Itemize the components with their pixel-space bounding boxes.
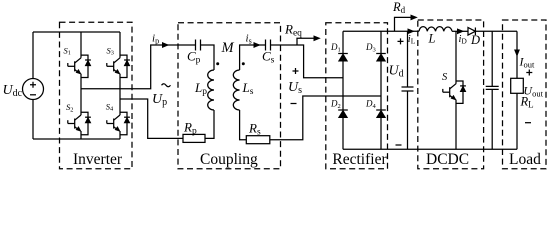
wire: load drop with I_out: [516, 31, 518, 78]
wire: rectifier right leg middle: [380, 61, 382, 110]
diode D (series, boost): [468, 28, 480, 48]
svg-text:D4: D4: [365, 99, 377, 110]
wire: right leg upper: [119, 32, 121, 58]
resistor R_p: [183, 120, 205, 143]
ac label tilde: [162, 84, 171, 87]
inductor L_s: [233, 70, 253, 110]
capacitor C_p: [187, 40, 201, 66]
svg-text:DCDC: DCDC: [426, 151, 469, 168]
box: Inverter: [60, 22, 133, 169]
wire: left leg upper: [80, 32, 82, 58]
polarity dot primary: [216, 62, 219, 65]
wire: rectifier left leg middle: [342, 61, 344, 110]
inductor L_p: [194, 70, 214, 110]
current arrow i_D: [457, 29, 467, 46]
current arrow i_L: [408, 29, 416, 46]
svg-text:M: M: [221, 40, 235, 56]
svg-text:S3: S3: [107, 45, 114, 56]
wire: left leg middle (node A): [80, 74, 82, 115]
resistor R_s: [246, 121, 269, 144]
svg-text:Lp: Lp: [194, 80, 207, 97]
svg-text:Rp: Rp: [183, 120, 197, 137]
capacitor dc link: [402, 31, 414, 149]
wire: C_p to L_p top: [201, 45, 215, 70]
wire: L_p bottom to R_p: [205, 110, 214, 138]
svg-text:Iout: Iout: [519, 55, 536, 70]
wire: L_s top to C_s: [240, 45, 266, 70]
svg-text:L: L: [428, 32, 436, 46]
wire: source top to top rail: [32, 32, 34, 79]
svg-text:iL: iL: [408, 34, 416, 46]
svg-text:Inverter: Inverter: [73, 151, 123, 168]
equivalent resistance annotation R_eq: [284, 22, 320, 46]
svg-text:Up: Up: [152, 92, 167, 108]
diode D2: [330, 99, 348, 118]
capacitor C_s: [262, 40, 275, 66]
svg-text:Load: Load: [509, 151, 541, 168]
wire: L_s bottom to R_s: [240, 110, 247, 140]
wire: rectifier left leg top: [342, 31, 344, 53]
wire: inverter bottom rail: [33, 138, 120, 140]
svg-text:Rs: Rs: [248, 121, 261, 138]
wire: R_L bottom: [516, 93, 518, 149]
svg-text:S4: S4: [106, 101, 114, 112]
svg-text:Rd: Rd: [392, 0, 406, 15]
diode D1: [330, 42, 348, 61]
svg-text:Cs: Cs: [262, 49, 275, 66]
svg-text:D1: D1: [330, 42, 341, 53]
transistor S3: [107, 45, 130, 77]
wire: R_s to rectifier input -: [270, 96, 381, 140]
svg-text:Ud: Ud: [389, 64, 404, 80]
box: Coupling: [178, 23, 281, 169]
box: Rectifier: [326, 23, 388, 169]
minus label load: [525, 122, 531, 124]
svg-text:Coupling: Coupling: [200, 151, 258, 168]
wire: S branch top: [455, 31, 457, 84]
svg-text:S1: S1: [64, 45, 71, 56]
current arrow I_out: [515, 50, 536, 70]
svg-text:Cp: Cp: [187, 49, 201, 66]
current arrow i_s: [246, 33, 261, 48]
svg-text:Udc: Udc: [3, 83, 23, 99]
svg-text:S: S: [442, 72, 448, 83]
voltage label U_d with polarity: [389, 38, 404, 145]
box: Load: [503, 20, 547, 169]
wire: left leg lower: [80, 131, 82, 139]
svg-text:Us: Us: [288, 80, 302, 96]
wire: rectifier right leg top: [380, 31, 382, 53]
svg-text:Uout: Uout: [523, 84, 543, 99]
wire: C_s to rectifier input +: [271, 45, 344, 78]
wire: rectifier left leg bottom: [342, 118, 344, 150]
transistor S1: [64, 45, 91, 77]
transistor S2: [66, 102, 91, 135]
wire: D to load corner: [475, 30, 517, 32]
inductor L: [419, 27, 452, 46]
wire: source bottom to bottom rail: [32, 100, 34, 140]
diode D4: [365, 99, 386, 118]
svg-text:is: is: [246, 33, 252, 46]
transistor S: [442, 72, 466, 103]
svg-text:D3: D3: [365, 42, 376, 53]
polarity dot secondary: [242, 62, 245, 65]
svg-text:S2: S2: [66, 102, 73, 113]
wire: R_p to node B: [120, 99, 183, 138]
svg-text:ip: ip: [152, 33, 159, 46]
wire: right leg middle (node B): [119, 74, 121, 115]
wire: rectifier right leg bottom: [380, 118, 382, 150]
voltage source U_dc: [3, 79, 44, 100]
wire: dc bottom rail: [343, 148, 517, 150]
svg-text:D: D: [470, 33, 480, 47]
wire: rectifier top rail to DCDC: [343, 30, 419, 32]
diode D3: [365, 42, 386, 61]
plus label load: [526, 70, 532, 76]
box: DCDC: [418, 20, 484, 169]
svg-text:D2: D2: [330, 99, 341, 110]
voltage label U_s with polarity: [288, 68, 302, 104]
capacitor C_out: [486, 31, 499, 149]
resistor R_L: [511, 78, 534, 109]
svg-text:Req: Req: [284, 22, 302, 39]
wire: L to D: [452, 30, 468, 32]
wire: S branch bottom: [455, 100, 457, 150]
wire: node A to primary top: [81, 45, 195, 89]
wire: inverter top rail: [33, 31, 120, 33]
svg-text:Rectifier: Rectifier: [332, 151, 387, 168]
damping resistance annotation R_d: [392, 0, 417, 31]
transistor S4: [106, 101, 130, 134]
current arrow i_p: [152, 33, 169, 48]
wire: right leg lower: [119, 131, 121, 139]
svg-text:Ls: Ls: [242, 80, 254, 97]
svg-text:iD: iD: [459, 34, 468, 46]
